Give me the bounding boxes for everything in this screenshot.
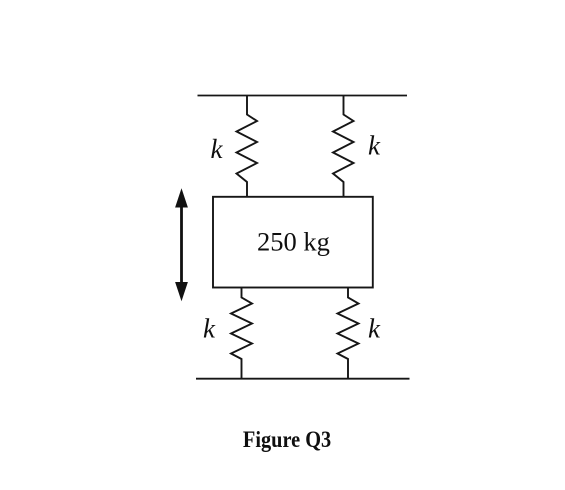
spring k bottom-right bbox=[338, 288, 359, 379]
svg-text:k: k bbox=[368, 131, 381, 161]
spring k top-left bbox=[237, 96, 258, 198]
svg-text:k: k bbox=[368, 314, 381, 344]
spring k bottom-left bbox=[231, 288, 252, 379]
top wall bbox=[198, 95, 408, 97]
spring k top-right bbox=[333, 96, 354, 198]
svg-text:k: k bbox=[203, 314, 216, 344]
bottom wall bbox=[196, 378, 410, 380]
svg-text:Figure Q3: Figure Q3 bbox=[243, 427, 331, 453]
mass block 250 kg bbox=[213, 197, 373, 288]
motion arrow (double-headed) bbox=[175, 188, 188, 301]
svg-text:k: k bbox=[211, 134, 224, 164]
svg-text:250 kg: 250 kg bbox=[257, 227, 330, 257]
